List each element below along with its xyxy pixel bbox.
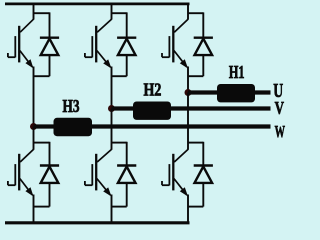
svg-text:U: U — [273, 78, 283, 101]
transducer H2 — [133, 102, 171, 120]
wire: top bus to Q1 collector — [20, 3, 33, 32]
transducer H3 — [54, 118, 93, 136]
svg-text:V: V — [275, 99, 285, 119]
wire: node V to Q4 collector — [97, 109, 111, 163]
wire: Q2 emitter to bottom bus — [33, 195, 35, 224]
label V — [275, 99, 285, 119]
wire: D5 anode to Q5 emitter — [188, 75, 203, 77]
diode D4 — [117, 166, 136, 183]
svg-text:H1: H1 — [229, 64, 245, 83]
top DC bus (+) — [5, 3, 190, 6]
IGBT Q5 — [162, 26, 188, 69]
IGBT Q4 — [85, 154, 112, 197]
label H1 — [229, 64, 245, 83]
wire: D3 anode to Q3 emitter — [112, 75, 127, 77]
node V junction — [108, 105, 115, 112]
diode D1 — [40, 38, 59, 55]
label H2 — [144, 81, 162, 100]
wire: diode D3 cathode tap — [112, 12, 127, 14]
wire: Q3 emitter to node V — [111, 67, 113, 109]
transducer H1 — [217, 84, 255, 102]
wire: node U to Q6 collector — [174, 93, 188, 163]
node U junction — [185, 89, 192, 96]
wire: node V output line — [112, 106, 271, 110]
wire: D3 anode lead — [126, 55, 128, 77]
wire: diode D6 cathode tap — [188, 142, 203, 144]
wire: Q1 emitter to node W — [33, 67, 35, 127]
label H3 — [63, 97, 80, 116]
wire: Q6 emitter to bottom bus — [187, 195, 189, 224]
wire: D5 anode lead — [202, 55, 204, 77]
wire: D4 anode to Q4 emitter — [112, 206, 127, 208]
wire: diode D2 cathode tap — [34, 142, 50, 144]
svg-text:H2: H2 — [144, 81, 162, 100]
wire: D1 anode to Q1 emitter — [34, 75, 50, 77]
wire: node U output line — [188, 90, 271, 94]
IGBT Q2 — [8, 154, 34, 197]
bottom DC bus (-) — [5, 221, 190, 224]
diode D6 — [194, 166, 213, 183]
diode D3 — [117, 38, 136, 55]
node W junction — [30, 123, 37, 130]
wire: Q5 emitter to node U — [187, 67, 189, 93]
IGBT Q3 — [85, 26, 112, 69]
label U — [273, 78, 283, 101]
wire: Q4 emitter to bottom bus — [111, 195, 113, 224]
wire: D2 anode to Q2 emitter — [34, 206, 50, 208]
wire: diode D4 cathode tap — [112, 142, 127, 144]
wire: node W output line — [34, 124, 271, 128]
wire: top bus to Q3 collector — [97, 3, 111, 32]
wire: D1 cathode lead — [49, 12, 51, 38]
svg-text:W: W — [275, 122, 286, 140]
diode D2 — [40, 166, 59, 183]
wire: D3 cathode lead — [126, 12, 128, 38]
wire: D2 anode lead — [49, 182, 51, 206]
wire: top bus to Q5 collector — [174, 3, 188, 32]
IGBT Q6 — [162, 154, 188, 197]
wire: D2 cathode lead — [49, 142, 51, 167]
wire: D5 cathode lead — [202, 12, 204, 38]
label W — [275, 122, 286, 140]
wire: diode D1 cathode tap — [34, 12, 50, 14]
IGBT Q1 — [8, 26, 34, 69]
wire: D6 anode lead — [202, 182, 204, 206]
wire: D1 anode lead — [49, 55, 51, 77]
wire: D6 cathode lead — [202, 142, 204, 167]
wire: node W to Q2 collector — [20, 127, 33, 163]
wire: D6 anode to Q6 emitter — [188, 206, 203, 208]
diode D5 — [194, 38, 213, 55]
wire: D4 cathode lead — [126, 142, 128, 167]
svg-text:H3: H3 — [63, 97, 80, 116]
wire: diode D5 cathode tap — [188, 12, 203, 14]
wire: D4 anode lead — [126, 182, 128, 206]
